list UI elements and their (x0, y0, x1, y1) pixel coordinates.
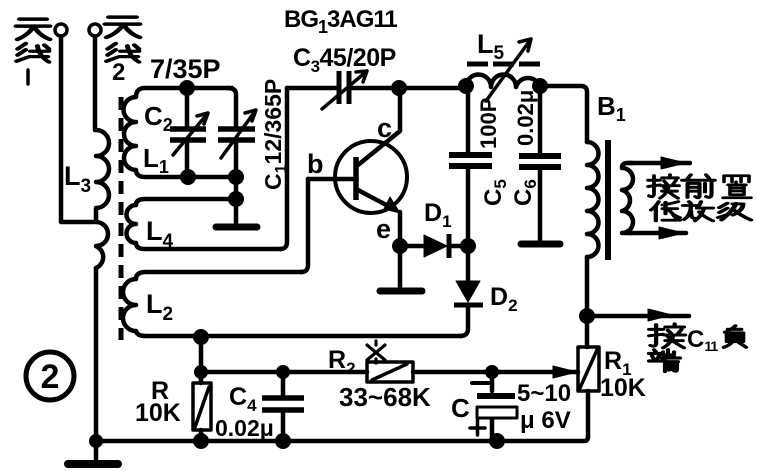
L5 core dashes (467, 62, 540, 67)
transformer B1 primary winding (587, 142, 599, 257)
svg-text:0.02μ: 0.02μ (215, 415, 274, 441)
capacitor C3 arrow (322, 71, 367, 109)
inductor L4 (127, 199, 282, 249)
ground rail bottom (96, 437, 588, 441)
capacitor C1 arrow (221, 110, 256, 158)
B1 secondary bottom lead with arrow (629, 231, 686, 236)
capacitor C4 plates (262, 398, 304, 410)
ground main stem (94, 441, 99, 459)
glyph di (651, 202, 680, 221)
wire R1 bottom to rail (586, 391, 591, 437)
inductor L3 (96, 130, 109, 268)
capacitor C electrolytic stems (490, 372, 495, 441)
resistor R body (193, 383, 211, 430)
capacitor C4 stems (281, 372, 286, 441)
svg-text:L1: L1 (143, 143, 169, 177)
svg-text:C2: C2 (144, 101, 173, 135)
svg-text:D2: D2 (490, 283, 518, 315)
ground emitter (380, 288, 422, 295)
capacitor C2 arrow (173, 113, 208, 155)
svg-text:33~68K: 33~68K (339, 382, 431, 412)
capacitor C plate top (477, 393, 515, 399)
capacitor C1 plates (218, 129, 255, 140)
dashed coupling line L3/L1 (119, 97, 124, 340)
svg-text:R2: R2 (328, 346, 356, 378)
ground C6 (521, 241, 560, 248)
capacitor C5 stems (466, 86, 471, 246)
capacitor C3 plates (339, 71, 349, 104)
svg-text:C: C (451, 393, 470, 423)
capacitor C6 stems (538, 86, 543, 241)
svg-text:C6: C6 (510, 179, 540, 206)
C polarity plus (470, 420, 485, 435)
transformer B1 core (605, 140, 611, 260)
svg-text:C345/20P: C345/20P (293, 44, 396, 76)
capacitor C5 plates (449, 155, 492, 166)
glyph ji (718, 203, 751, 220)
glyph numeral 1 (antenna1) (26, 70, 30, 84)
svg-text:C4: C4 (229, 383, 257, 415)
svg-text:L4: L4 (146, 216, 174, 252)
ground emitter stem (398, 246, 403, 288)
glyph tian (antenna2) (105, 17, 140, 37)
wire C3 right to L5 (352, 86, 466, 91)
wire C3 left (287, 86, 336, 91)
capacitor C2 plates (170, 129, 206, 140)
diode D2 stem (466, 246, 471, 281)
wire R2 to R1 with arrowhead (413, 370, 578, 375)
wire L5 right to B1 (540, 86, 587, 142)
svg-text:C11: C11 (687, 326, 718, 354)
svg-text:2: 2 (41, 358, 60, 396)
reference mark (367, 341, 385, 363)
wire R bottom (199, 372, 204, 441)
wire L2 bottom corner up to D2 (460, 308, 468, 336)
svg-text:10K: 10K (600, 374, 646, 402)
glyph jie (top right) (648, 175, 679, 198)
glyph fu (724, 326, 746, 348)
svg-text:e: e (376, 214, 391, 244)
glyph xian (antenna2) (106, 44, 138, 62)
diode D1 leads (400, 244, 468, 249)
svg-text:L3: L3 (64, 161, 91, 197)
svg-text:D1: D1 (424, 199, 452, 231)
resistor R1 body (578, 347, 599, 391)
resistor R2 body (367, 362, 413, 382)
L5 arrow (486, 39, 531, 101)
wire base down to L2 (301, 179, 308, 272)
svg-text:7/35P: 7/35P (150, 54, 221, 84)
diode D2 cathode bar (454, 303, 483, 308)
ground main (68, 460, 118, 468)
transistor emitter arrowhead (384, 197, 400, 213)
antenna terminal 2 (89, 24, 101, 36)
svg-text:μ 6V: μ 6V (520, 407, 571, 434)
svg-text:0.02μ: 0.02μ (513, 90, 538, 146)
inductor L5 (466, 75, 540, 88)
svg-text:C5: C5 (480, 179, 510, 206)
wire L3 bottom to ground rail (94, 268, 99, 441)
inductor L1 with tank top and bottom wires (124, 88, 237, 177)
transistor base lead (308, 177, 353, 182)
svg-text:b: b (307, 149, 324, 179)
resistor R2 slash (372, 364, 407, 380)
transistor BG1 circle (335, 141, 407, 213)
svg-text:2: 2 (112, 59, 125, 86)
capacitor C plate bottom (hollow) (477, 407, 517, 418)
inductor L2 (123, 272, 461, 336)
wire arrow to C11 (594, 314, 689, 319)
svg-text:BG13AG11: BG13AG11 (284, 6, 397, 37)
wire L4 bottom up to C3 (280, 88, 287, 249)
diode D1 triangle (424, 235, 447, 257)
wire L2 node down to R node (199, 337, 204, 372)
glyph jie (bottom right) (649, 324, 685, 348)
wire mid rail to R2 (201, 370, 367, 375)
svg-text:5~10: 5~10 (517, 380, 571, 407)
capacitor C6 plates (519, 156, 561, 167)
antenna terminal 1 (55, 24, 67, 36)
diode D1 cathode bar (447, 234, 452, 258)
transistor base bar (353, 157, 359, 200)
diode D2 triangle (456, 281, 480, 302)
transformer B1 secondary winding (622, 163, 633, 233)
resistor R slash (195, 387, 209, 427)
svg-text:C112/365P: C112/365P (260, 79, 290, 190)
B1 secondary top lead with arrow (629, 161, 690, 166)
wire antenna1 to L3 tap (61, 37, 94, 222)
wire tank top corner down to C1 (227, 88, 236, 127)
svg-text:L2: L2 (146, 289, 173, 325)
transistor emitter (358, 190, 400, 246)
svg-text:c: c (377, 113, 392, 143)
glyph zhi (723, 176, 751, 198)
svg-text:100P: 100P (476, 98, 501, 149)
glyph duan (649, 350, 680, 372)
resistor R1 slash (580, 350, 597, 388)
glyph fang (683, 202, 713, 221)
glyph qian (682, 175, 715, 198)
transistor collector (358, 88, 400, 165)
capacitor C2 stems (185, 88, 190, 177)
glyph tian (antenna1) (16, 19, 50, 39)
hand-drawn CJK glyphs (16, 17, 751, 371)
svg-text:L5: L5 (477, 29, 505, 64)
wire antenna2 down (93, 37, 98, 130)
wire B1 primary bottom to R1 (585, 257, 590, 347)
C polarity minus (472, 381, 489, 385)
glyph xian (antenna1) (16, 44, 48, 62)
wire C1 bottom to L4 node and ground (234, 141, 239, 224)
svg-text:10K: 10K (135, 399, 181, 427)
svg-text:B1: B1 (597, 91, 626, 125)
ground tank (216, 224, 257, 231)
figure number circle 2 (26, 352, 74, 400)
